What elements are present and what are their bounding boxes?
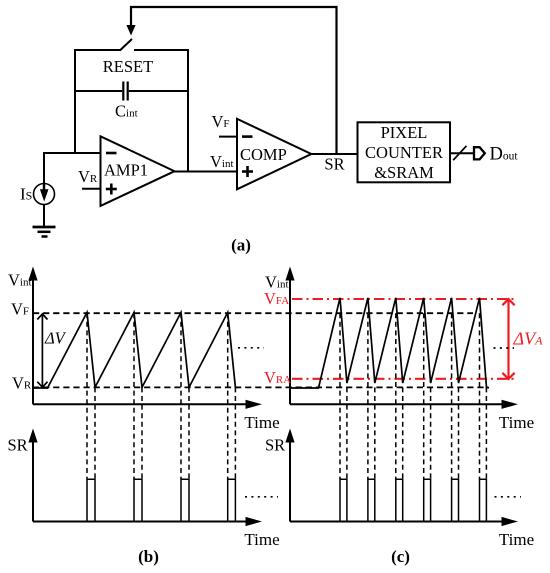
svg-text:SR: SR [324, 155, 344, 174]
axis Time (b) upper horizontal [33, 403, 247, 405]
waveform sawtooth (b) [33, 312, 239, 388]
capacitor C_int right plate [127, 82, 129, 101]
capacitor C_int right lead [129, 90, 188, 92]
continuation dots (c) upper [494, 347, 515, 349]
arrowhead feedback into switch [126, 25, 135, 36]
wire AMP1 output to COMP non-inverting input [175, 171, 238, 173]
wire VR to non-inverting input [82, 188, 101, 190]
red double arrow delta VA [502, 299, 514, 379]
switch RESET lever [121, 39, 133, 50]
wire reset branch top edge right part [134, 49, 188, 51]
axis SR (c) vertical [289, 441, 291, 522]
wire feedback from SR node up and across to reset switch [131, 7, 337, 154]
svg-text:(a): (a) [231, 236, 251, 255]
axis SR (b) vertical [32, 441, 34, 522]
continuation dots (c) SR [495, 496, 522, 498]
svg-text:COMP: COMP [240, 145, 287, 164]
wire right edge of reset/cap branch down to amp output node [187, 49, 189, 172]
capacitor C_int left lead [75, 90, 122, 92]
wire VF to COMP inverting input [219, 136, 237, 138]
wire inverting input node horizontal [44, 152, 101, 154]
op-amp AMP1 [101, 136, 175, 206]
svg-text:SR: SR [8, 436, 28, 455]
dashed level line VR [33, 386, 488, 388]
wire block output to buffer [450, 152, 474, 154]
svg-text:Time: Time [244, 530, 279, 549]
svg-text:Time: Time [244, 413, 279, 432]
current source arrow [43, 184, 45, 191]
axis Time (c) lower horizontal [290, 521, 503, 523]
bus slash [453, 146, 466, 160]
svg-text:(b): (b) [138, 547, 159, 566]
axis Time (c) upper horizontal [290, 403, 503, 405]
SR pulses (b) [87, 479, 235, 521]
svg-text:Time: Time [499, 530, 534, 549]
SR pulses (c) [340, 479, 486, 521]
axis Time (b) lower horizontal [33, 521, 247, 523]
wire from input node down to current source [43, 152, 45, 184]
capacitor C_int left plate [122, 82, 124, 101]
red dash-dot line VFA [292, 298, 514, 300]
svg-text:&SRAM: &SRAM [374, 163, 434, 182]
svg-text:AMP1: AMP1 [104, 161, 148, 180]
wire current source to ground [43, 205, 45, 228]
dashed level line VF [33, 312, 473, 314]
continuation dots (b) upper [238, 347, 264, 349]
block PIXEL COUNTER & SRAM [358, 122, 451, 182]
red dash-dot line VRA [292, 378, 514, 380]
svg-text:(c): (c) [391, 547, 410, 566]
axis Vint (b) vertical [32, 279, 34, 404]
svg-text:Time: Time [499, 413, 534, 432]
wire left edge of reset/cap branch down to inverting input node [74, 49, 76, 153]
delta V double arrow [37, 314, 47, 388]
axis Vint (c) vertical [289, 279, 291, 404]
dashed drop lines (c) [340, 313, 486, 479]
wire COMP output to pixel counter block [311, 153, 357, 155]
output buffer pentagon [474, 147, 485, 159]
ground [33, 227, 56, 237]
wire reset branch top edge left part [75, 49, 121, 51]
svg-text:SR: SR [265, 436, 285, 455]
svg-text:PIXEL: PIXEL [381, 123, 428, 142]
continuation dots (b) SR [245, 496, 278, 498]
svg-text:ΔV: ΔV [44, 329, 67, 348]
dashed drop lines (b) [87, 313, 235, 479]
svg-text:RESET: RESET [103, 57, 153, 76]
current source IS circle [34, 184, 55, 205]
waveform sawtooth (c) [290, 298, 489, 388]
svg-text:COUNTER: COUNTER [365, 143, 443, 162]
comparator COMP [237, 119, 311, 190]
